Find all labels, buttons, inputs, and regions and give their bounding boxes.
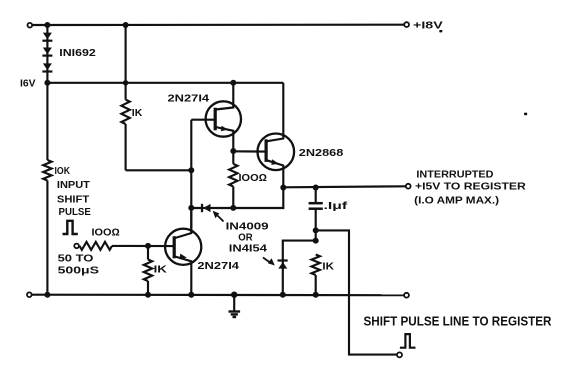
svg-text:SHIFT PULSE LINE TO REGISTER: SHIFT PULSE LINE TO REGISTER (364, 314, 552, 329)
svg-text:IN4I54: IN4I54 (229, 244, 268, 255)
svg-text:IOOΩ: IOOΩ (239, 173, 268, 184)
svg-text:I6V: I6V (20, 79, 36, 90)
svg-text:(I.O AMP MAX.): (I.O AMP MAX.) (414, 196, 499, 207)
svg-text:.Iμf: .Iμf (324, 201, 349, 212)
svg-text:IN4009: IN4009 (226, 221, 270, 232)
svg-text:IOK: IOK (55, 166, 71, 177)
svg-text:IK: IK (322, 261, 334, 272)
svg-text:500μS: 500μS (58, 266, 100, 277)
svg-text:IOOΩ: IOOΩ (92, 227, 121, 238)
svg-text:+I8V: +I8V (413, 20, 443, 31)
svg-text:2N2868: 2N2868 (299, 148, 344, 159)
svg-text:INTERRUPTED: INTERRUPTED (416, 169, 493, 180)
svg-text:OR: OR (238, 232, 253, 243)
svg-text:INI692: INI692 (59, 48, 96, 59)
svg-text:IK: IK (132, 108, 143, 119)
svg-text:IK: IK (154, 264, 168, 275)
svg-text:2N27I4: 2N27I4 (168, 93, 210, 104)
svg-text:2N27I4: 2N27I4 (197, 261, 239, 272)
svg-text:+I5V TO REGISTER: +I5V TO REGISTER (415, 181, 527, 192)
svg-text:SHIFT: SHIFT (57, 194, 89, 205)
svg-text:50 TO: 50 TO (58, 254, 94, 265)
svg-text:INPUT: INPUT (57, 180, 90, 191)
svg-text:PULSE: PULSE (59, 207, 92, 218)
